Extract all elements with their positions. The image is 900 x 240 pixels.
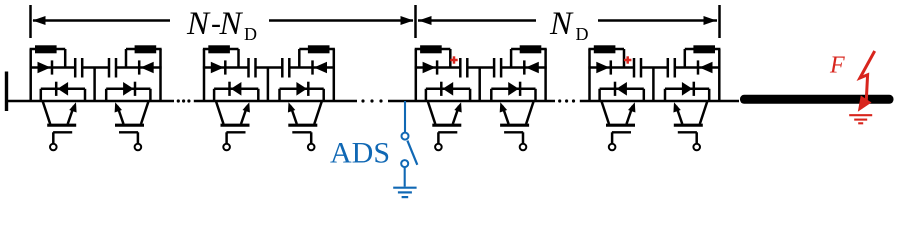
diode D8 <box>296 82 308 96</box>
wire: row3 staple cell 7 <box>600 89 644 101</box>
wire: left riser of pair 2 <box>203 49 206 101</box>
diode D7 <box>230 82 242 96</box>
resistor R1 <box>35 45 57 53</box>
label N-ND <box>186 6 257 44</box>
dimension tick middle <box>414 5 417 38</box>
transistor Q5 <box>428 101 462 150</box>
transistor Q1 <box>43 101 77 150</box>
svg-text:N: N <box>219 6 244 42</box>
label ND <box>549 6 589 44</box>
wire: resistor loop right drop, cell 7 <box>623 49 626 68</box>
diode D13 <box>596 60 611 74</box>
wire: row3 staple cell 8 <box>665 89 709 101</box>
wire: resistor loop top, cell 2 <box>126 48 162 51</box>
wire: row2 segment cell 5 <box>415 66 461 69</box>
transistor Q6 <box>500 101 534 150</box>
wire: resistor loop top, cell 6 <box>511 48 547 51</box>
wire: resistor loop right drop, cell 1 <box>64 49 67 68</box>
diode D5 <box>211 60 226 74</box>
wire: resistor loop left drop, cell 6 <box>510 49 513 68</box>
wire: ADS drop from rail (blue) <box>404 101 406 132</box>
wire: row3 staple cell 1 <box>41 89 85 101</box>
diode D16 <box>682 82 694 96</box>
node: ellipsis dots 1 <box>177 99 191 102</box>
dimension line ND right part with arrow <box>598 16 717 25</box>
resistor R8 <box>693 45 715 53</box>
wire: middle vertical to rail <box>652 68 655 102</box>
svg-text:N: N <box>186 6 211 42</box>
wire: row2 segment cell 2 <box>116 66 162 69</box>
capacitor C1 <box>75 58 82 78</box>
wire: row3 staple cell 4 <box>280 89 324 101</box>
wire: resistor loop right drop, cell 5 <box>449 49 452 68</box>
wire: resistor loop left drop, cell 8 <box>684 49 687 68</box>
wire: main rail segment 3 <box>388 100 555 103</box>
diode D4 <box>123 82 135 96</box>
diode D3 <box>56 82 68 96</box>
wire: row2 middle segment <box>256 66 283 69</box>
diode D14 <box>698 60 713 74</box>
wire: middle vertical to rail <box>478 68 481 102</box>
wire: row2 segment cell 4 <box>289 66 335 69</box>
diode D15 <box>615 82 627 96</box>
transistor Q7 <box>601 101 635 150</box>
node: left input electrode bar <box>5 72 8 112</box>
switch: ADS blade <box>407 141 417 165</box>
wire: resistor loop top, cell 7 <box>588 48 624 51</box>
wire: ADS stem to ground <box>404 168 406 187</box>
wire: left riser of pair 4 <box>588 49 591 101</box>
node: ellipsis dots 2 <box>361 99 382 102</box>
dimension line N-ND left part with arrow <box>33 16 171 25</box>
node: ADS switch bottom terminal <box>401 160 408 167</box>
wire: middle vertical to rail <box>93 68 96 102</box>
diode D12 <box>508 82 520 96</box>
diode D11 <box>441 82 453 96</box>
wire: main rail segment 2 <box>194 100 357 103</box>
dimension line N-ND right part with arrow <box>269 16 414 25</box>
wire: resistor loop top, cell 5 <box>415 48 451 51</box>
svg-text:D: D <box>576 24 589 44</box>
transistor Q8 <box>673 101 707 150</box>
capacitor C2 <box>109 58 116 78</box>
wire: right riser of pair 4 <box>718 49 721 101</box>
wire: resistor loop left drop, cell 4 <box>298 49 301 68</box>
ground: ADS ground symbol (blue) <box>393 188 416 197</box>
diode D2 <box>139 60 154 74</box>
capacitor C5 <box>460 58 467 78</box>
diode D9 <box>423 60 438 74</box>
resistor R4 <box>308 45 330 53</box>
wire: row2 segment cell 7 <box>588 66 634 69</box>
wire: row2 middle segment <box>467 66 494 69</box>
wire: right riser of pair 2 <box>333 49 336 101</box>
wire: row2 segment cell 8 <box>675 66 721 69</box>
svg-text:N: N <box>549 6 574 42</box>
wire: row3 staple cell 2 <box>106 89 150 101</box>
resistor R2 <box>135 45 157 53</box>
wire: main rail segment 1 <box>6 100 174 103</box>
capacitor C3 <box>249 58 256 78</box>
wire: row2 segment cell 1 <box>30 66 76 69</box>
diode D10 <box>524 60 539 74</box>
svg-text:ADS: ADS <box>330 137 390 170</box>
node: ellipsis dots 3 <box>558 99 575 102</box>
wire: row2 middle segment <box>641 66 668 69</box>
wire: row2 segment cell 6 <box>501 66 547 69</box>
wire: main rail segment 4 <box>580 100 739 103</box>
capacitor C6 <box>494 58 501 78</box>
svg-text:F: F <box>829 52 845 78</box>
wire: row3 staple cell 5 <box>426 89 470 101</box>
resistor R3 <box>208 45 230 53</box>
node: trigger tap "+" of pair 3 <box>450 56 457 63</box>
wire: row3 staple cell 6 <box>491 89 535 101</box>
diode D1 <box>38 60 53 74</box>
wire: row3 staple cell 3 <box>214 89 258 101</box>
wire: right riser of pair 3 <box>544 49 547 101</box>
node: trigger tap "+" of pair 4 <box>624 56 631 63</box>
capacitor C4 <box>282 58 289 78</box>
capacitor C7 <box>634 58 641 78</box>
wire: left riser of pair 3 <box>415 49 418 101</box>
svg-text:D: D <box>244 24 257 44</box>
node: ADS switch top terminal <box>402 133 409 140</box>
diode D6 <box>313 60 328 74</box>
transistor Q4 <box>288 101 322 150</box>
lightning bolt arrow (red) <box>858 51 875 112</box>
wire: middle vertical to rail <box>267 68 270 102</box>
node: thick output electrode bar <box>740 95 894 104</box>
dimension line ND left part with arrow <box>418 16 536 25</box>
wire: right riser of pair 1 <box>159 49 162 101</box>
wire: resistor loop top, cell 8 <box>685 48 721 51</box>
wire: resistor loop right drop, cell 3 <box>237 49 240 68</box>
wire: resistor loop top, cell 3 <box>203 48 239 51</box>
resistor R6 <box>520 45 542 53</box>
capacitor C8 <box>668 58 675 78</box>
wire: resistor loop left drop, cell 2 <box>125 49 128 68</box>
ground: strike ground symbol (red) <box>849 115 872 123</box>
wire: row2 segment cell 3 <box>203 66 249 69</box>
dimension tick right <box>718 5 721 38</box>
transistor Q3 <box>216 101 250 150</box>
dimension tick left <box>29 5 32 38</box>
wire: row2 middle segment <box>82 66 109 69</box>
resistor R7 <box>594 45 616 53</box>
wire: left riser of pair 1 <box>29 49 32 101</box>
transistor Q2 <box>115 101 149 150</box>
wire: resistor loop top, cell 4 <box>299 48 335 51</box>
wire: resistor loop top, cell 1 <box>30 48 66 51</box>
resistor R5 <box>420 45 442 53</box>
